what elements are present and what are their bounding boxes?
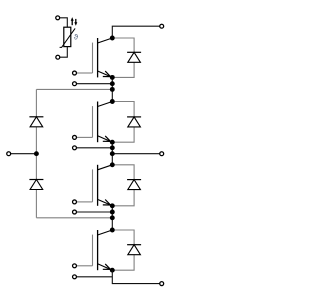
D5 cathode bar: [29, 116, 43, 118]
Q2 emitter diagonal: [98, 136, 113, 142]
node clamp top junction: [110, 87, 115, 92]
terminal Q1 aux emitter: [73, 82, 77, 86]
Q4 emitter arrowhead: [103, 264, 111, 270]
transistor Q2 (IGBT): [73, 102, 113, 143]
terminal Q1 gate: [73, 71, 77, 75]
wire column Q3E to next collector: [111, 206, 113, 230]
terminal AC output: [160, 152, 164, 156]
wire Q4 aux emitter: [77, 276, 113, 278]
wire clamp vertical bus: [35, 89, 37, 217]
diode D4 (freewheel of Q4): [112, 230, 141, 270]
node Q2 collector junction: [110, 99, 115, 104]
node Q4 collector junction: [110, 228, 115, 233]
terminal Q3 aux emitter: [73, 210, 77, 214]
Q3 emitter diagonal: [98, 199, 113, 205]
wire D2 branch loop: [112, 102, 134, 143]
diode D3 (freewheel of Q3): [112, 165, 141, 206]
thermistor diagonal stroke: [60, 28, 76, 47]
D2 cathode bar: [127, 116, 141, 118]
wire Q1 gate lead: [77, 72, 93, 74]
Q1 emitter arrowhead: [103, 71, 111, 77]
wire Q2 aux emitter: [77, 147, 113, 149]
terminal neutral point: [7, 152, 11, 156]
Q1 collector diagonal: [98, 38, 113, 43]
Q2 emitter arrowhead: [103, 136, 111, 142]
wire clamp bottom horizontal: [36, 217, 112, 219]
node Q4 emitter junction: [110, 268, 115, 273]
Q3 body bar: [97, 165, 99, 206]
Q1 body bar: [97, 38, 99, 77]
wire AC output to right terminal: [112, 153, 160, 155]
node neutral junction: [34, 151, 39, 156]
terminal Q4 gate: [73, 264, 77, 268]
transistor Q3 (IGBT): [73, 165, 113, 206]
terminal DC+: [160, 24, 164, 28]
node Q2 emitter junction: [110, 140, 115, 145]
wire DC+ top rail: [112, 26, 160, 38]
node Q3 emitter junction: [110, 203, 115, 208]
terminal Q2 aux emitter: [73, 146, 77, 150]
Q4 body bar: [97, 230, 99, 270]
D1 cathode bar: [127, 51, 141, 53]
Q4 collector diagonal: [98, 230, 113, 235]
node Q3 aux emitter junction: [110, 210, 115, 215]
wire Q3 gate lead: [77, 201, 93, 203]
wire Q4 gate lead: [77, 265, 93, 267]
Q2 body bar: [97, 102, 99, 143]
arrow down (bidirectional mark): [74, 19, 77, 26]
thermistor body rectangle: [64, 27, 71, 46]
wire column Q1E to next collector: [111, 77, 113, 101]
diode D1 (freewheel of Q1): [112, 38, 141, 77]
svg-text:ϑ: ϑ: [74, 32, 79, 41]
wire column Q2E to next collector: [111, 142, 113, 165]
Q3 gate bar: [92, 169, 94, 202]
Q2 collector diagonal: [98, 102, 113, 107]
terminal thermistor top: [56, 16, 60, 20]
node clamp bottom junction: [110, 215, 115, 220]
arrow up (bidirectional mark): [71, 17, 74, 25]
terminal Q3 gate: [73, 200, 77, 204]
D4 cathode bar: [127, 244, 141, 246]
node Q1 emitter junction: [110, 75, 115, 80]
wire thermistor top lead: [60, 18, 68, 27]
wire Q1 aux emitter: [77, 83, 113, 85]
terminal Q2 gate: [73, 135, 77, 139]
node Q2 aux emitter junction: [110, 145, 115, 150]
terminal thermistor bottom: [56, 55, 60, 59]
wire DC- bottom rail: [112, 270, 160, 283]
D2 triangle: [128, 117, 141, 127]
Q4 gate bar: [92, 235, 94, 266]
terminal Q4 aux emitter: [73, 275, 77, 279]
diode D2 (freewheel of Q2): [112, 102, 141, 143]
D3 triangle: [128, 180, 141, 190]
D6 triangle: [30, 180, 43, 190]
wire Q2 gate lead: [77, 136, 93, 138]
wire D4 branch loop: [112, 230, 134, 270]
transistor Q4 (IGBT): [73, 230, 113, 270]
wire D1 branch loop: [112, 38, 134, 77]
Q3 emitter arrowhead: [103, 200, 111, 206]
D1 triangle: [128, 52, 141, 62]
D4 triangle: [128, 245, 141, 255]
diode D5 (clamp upper): [29, 117, 43, 127]
thermistor RT1 (NTC temperature sensor): [56, 16, 79, 59]
node Q3 collector junction: [110, 162, 115, 167]
diode D6 (clamp lower): [29, 180, 43, 190]
Q1 gate bar: [92, 43, 94, 73]
D6 cathode bar: [29, 179, 43, 181]
D3 cathode bar: [127, 179, 141, 181]
node Q1 collector junction: [110, 36, 115, 41]
wire Q3 aux emitter: [77, 211, 113, 213]
transistor Q1 (IGBT): [73, 38, 113, 77]
Q1 emitter diagonal: [98, 71, 113, 77]
Q3 collector diagonal: [98, 165, 113, 170]
Q2 gate bar: [92, 106, 94, 137]
wire clamp top horizontal: [36, 88, 112, 90]
wire thermistor bottom lead: [60, 47, 68, 58]
Q4 emitter diagonal: [98, 264, 113, 270]
node Q1 aux emitter junction: [110, 81, 115, 86]
node AC output junction: [110, 151, 115, 156]
wire neutral point to left terminal: [11, 153, 37, 155]
terminal DC-: [160, 282, 164, 286]
wire D3 branch loop: [112, 165, 134, 206]
D5 triangle: [30, 117, 43, 127]
